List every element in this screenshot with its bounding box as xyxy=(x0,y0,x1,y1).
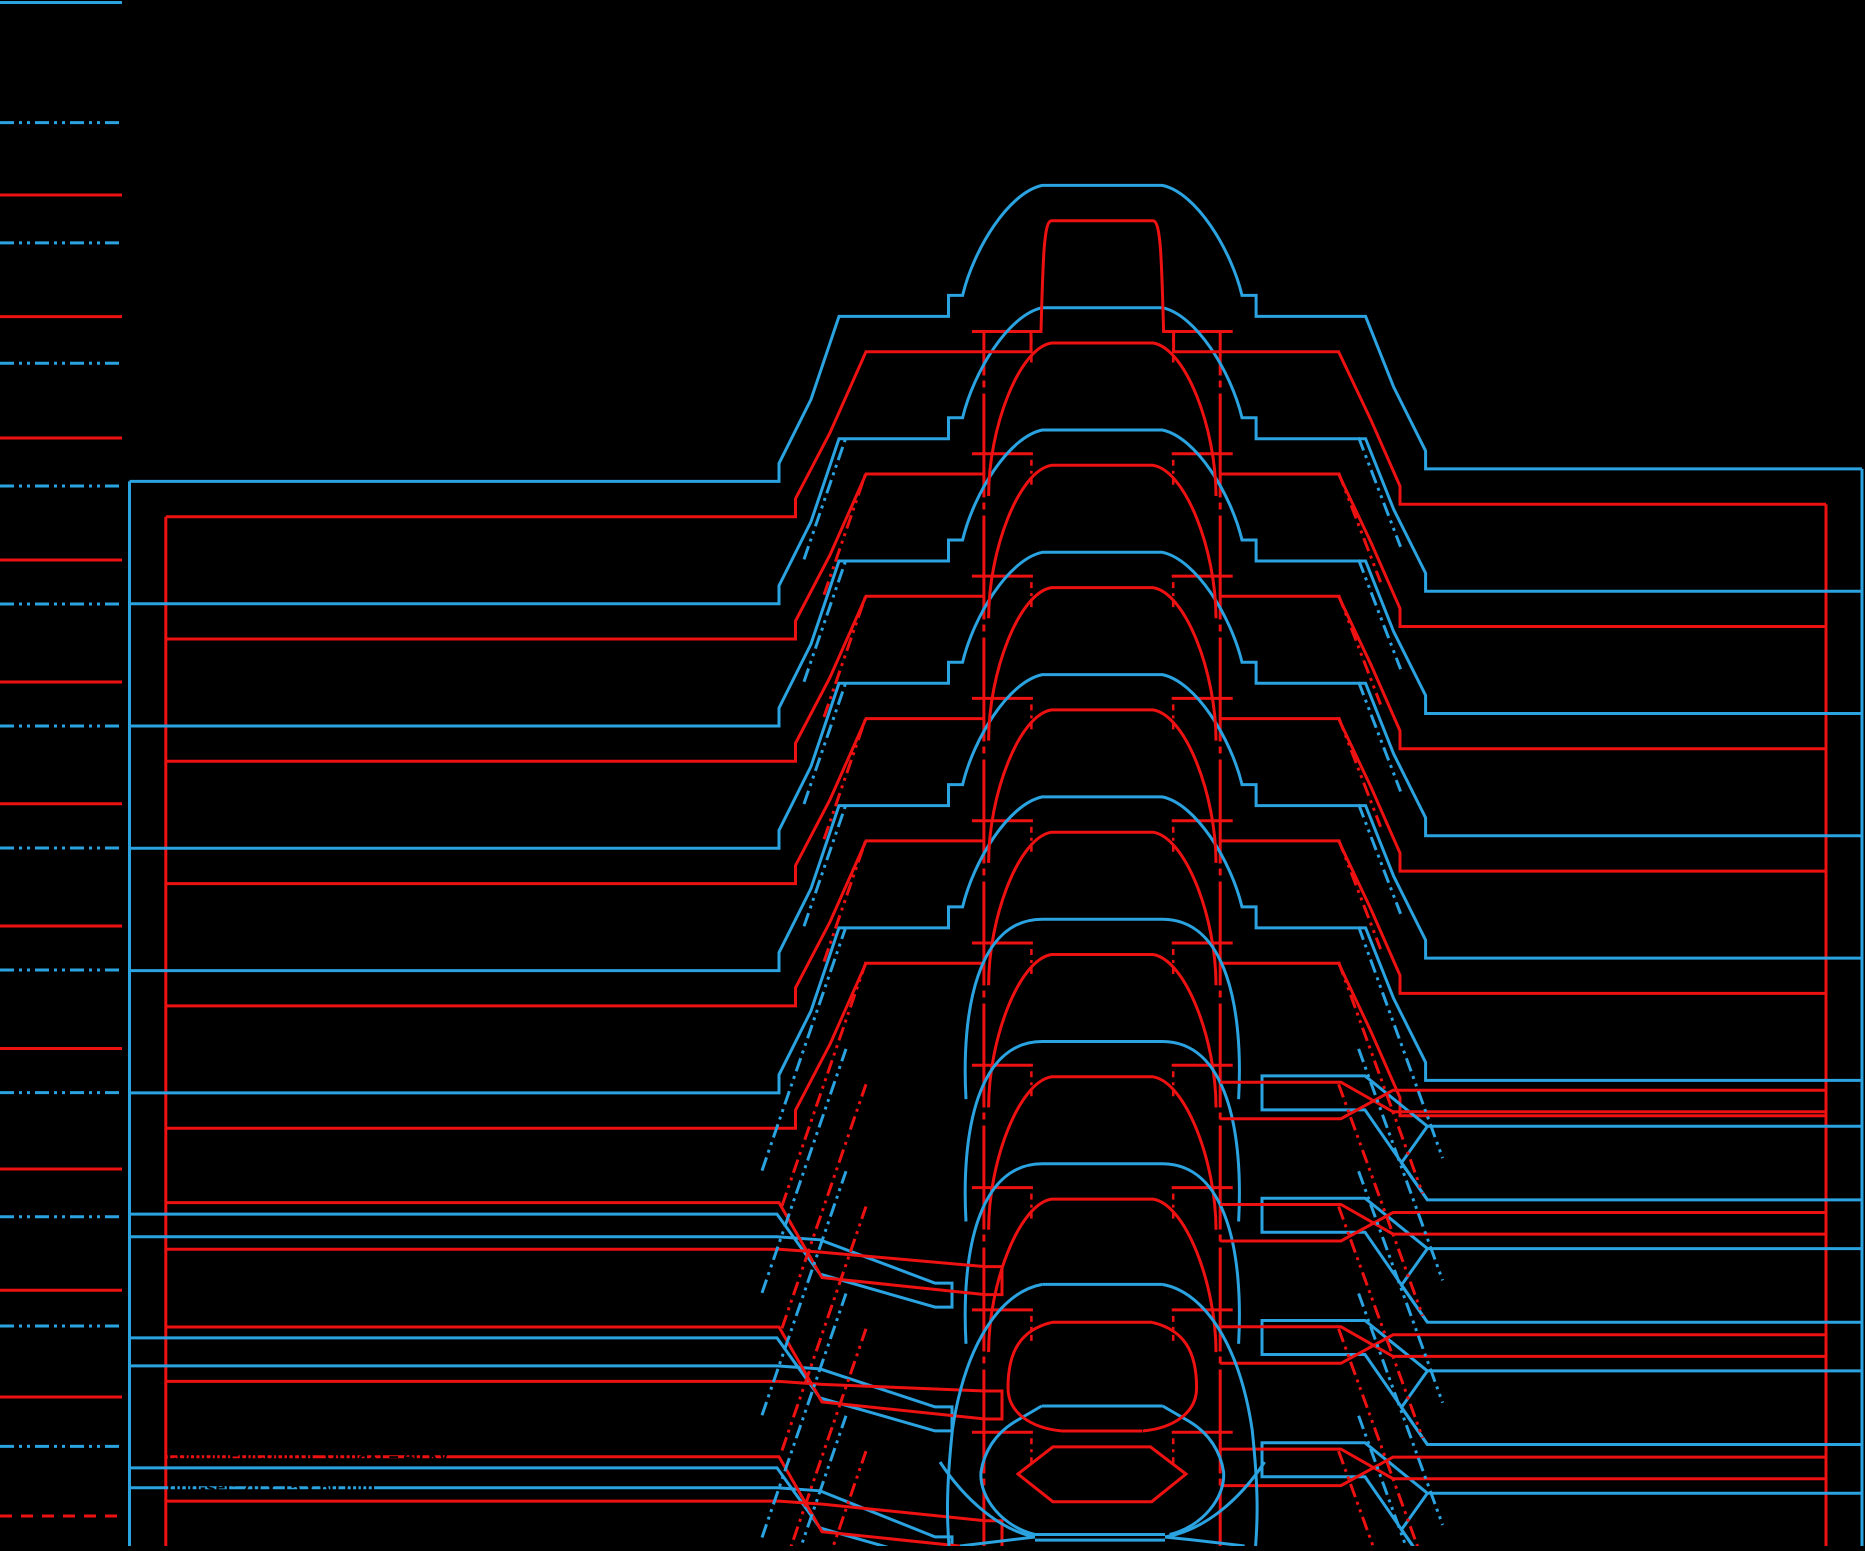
red contour 1 left side xyxy=(166,474,984,639)
blue dash-dot ramp left 3 xyxy=(804,804,846,926)
blue omega dome 8 xyxy=(965,1164,1239,1344)
electrode cap right 8 xyxy=(1172,1308,1233,1311)
red omega dome 6 xyxy=(989,955,1216,1108)
stub blue solid top edge xyxy=(0,1,122,4)
blue dash-dot ramp left 1 xyxy=(804,560,846,682)
red band right lower 1 xyxy=(1220,1213,1826,1242)
red contour 3 left side xyxy=(166,719,984,884)
electrode cap right 6 xyxy=(1172,1064,1233,1067)
dash-dot fragment left 6 xyxy=(1030,1071,1033,1099)
red contour 2 right side xyxy=(1220,596,1826,749)
dash-dot fragment left 7 xyxy=(1030,1194,1033,1222)
red contour 3 right side xyxy=(1220,719,1826,872)
red hexagon k10 xyxy=(1018,1447,1186,1502)
stub blue dash-dot 11 xyxy=(0,1445,122,1448)
blue dash-dot ramp left 7 xyxy=(762,1294,846,1538)
electrode cap left 2 xyxy=(972,575,1033,578)
blue dash-dot ramp left 4 xyxy=(762,927,846,1171)
red dash-dot ramp right 7 xyxy=(1339,1329,1423,1551)
electrode cap left 1 xyxy=(972,452,1033,455)
blue stem band right 1 xyxy=(1262,1198,1427,1322)
blue dash-dot ramp left 6 xyxy=(762,1171,846,1415)
red dash-dot ramp right 6 xyxy=(1339,1207,1423,1439)
right blue rail xyxy=(1861,469,1864,1546)
electrode cap left 4 xyxy=(972,819,1033,822)
rail loops xyxy=(131,1214,952,1307)
svg-text:combined/control: U(max) =: combined/control: U(max) = 40 kV xyxy=(167,1445,450,1465)
stub red dashed 11 xyxy=(0,1515,122,1518)
blue contour 5 xyxy=(130,797,1863,1093)
stub red solid 7 xyxy=(0,1047,122,1050)
blue omega dome 6 xyxy=(965,919,1239,1099)
red contour 2 left side xyxy=(166,596,984,761)
blue dash-dot ramp right 1 xyxy=(1359,560,1401,670)
red omega dome 7 xyxy=(989,1077,1216,1230)
red omega dome 1 xyxy=(989,343,1216,496)
electrode cap right 5 xyxy=(1172,942,1233,945)
dash-dot fragment right 6 xyxy=(1172,1071,1175,1099)
red dash-dot ramp right 0 xyxy=(1339,473,1381,583)
red dash-dot ramp left 8 xyxy=(782,1451,866,1551)
dash-dot fragment right 3 xyxy=(1172,704,1175,732)
red omega dome 3 xyxy=(989,588,1216,741)
red band right upper 0 xyxy=(1220,1082,1826,1112)
dash-dot fragment left 1 xyxy=(1030,460,1033,488)
red dash-dot ramp right 5 xyxy=(1339,1084,1423,1316)
electrode cap left 6 xyxy=(972,1064,1033,1067)
stub red solid 2 xyxy=(0,437,122,440)
stub blue dash-dot 3 xyxy=(0,485,122,488)
dash-dot fragment right 1 xyxy=(1172,460,1175,488)
blue lens k11 xyxy=(1035,1533,1165,1536)
red dash-dot ramp right 3 xyxy=(1339,840,1381,950)
red dash-dot ramp left 0 xyxy=(824,473,866,595)
electrode cap right 7 xyxy=(1172,1186,1233,1189)
blue dash-dot ramp left 2 xyxy=(804,682,846,804)
red dash-dot ramp left 2 xyxy=(824,717,866,839)
red contour 4 right side xyxy=(1220,841,1826,994)
red band right upper 1 xyxy=(1220,1205,1826,1235)
red contour 5 right side xyxy=(1220,963,1826,1115)
red dash-dot ramp left 4 xyxy=(782,962,866,1206)
red band right lower 3 xyxy=(1220,1457,1826,1486)
dash-dot fragment right 7 xyxy=(1172,1194,1175,1222)
stub red solid 4 xyxy=(0,681,122,684)
stub blue dash-dot 8 xyxy=(0,1091,122,1094)
dash-dot fragment left 0 xyxy=(1030,338,1033,366)
blue stem band right 2 xyxy=(1262,1321,1427,1445)
stub blue dash-dot 9 xyxy=(0,1215,122,1218)
red band right upper 3 xyxy=(1220,1449,1826,1479)
dash-dot fragment left 2 xyxy=(1030,582,1033,610)
left electrode stem xyxy=(982,332,985,1547)
red dash-dot ramp right 4 xyxy=(1339,962,1423,1194)
red dash-dot ramp right 1 xyxy=(1339,595,1381,705)
blue dash-dot ramp left 8 xyxy=(762,1416,846,1551)
stub blue dash-dot 1 xyxy=(0,241,122,244)
red twisted band left 0 xyxy=(167,1203,1002,1295)
stub red solid 9 xyxy=(0,1289,122,1292)
stub blue dash-dot 2 xyxy=(0,362,122,365)
dash-dot fragment left 9 xyxy=(1030,1438,1033,1466)
dash-dot fragment left 8 xyxy=(1030,1316,1033,1344)
stub red solid 8 xyxy=(0,1168,122,1171)
left blue rail xyxy=(128,481,131,1546)
red omega dome 2 xyxy=(989,465,1216,618)
red twisted band left 2 xyxy=(167,1457,1002,1549)
stub blue dash-dot 4 xyxy=(0,603,122,606)
stub blue dash-dot 0 xyxy=(0,121,122,124)
dash-dot fragment right 0 xyxy=(1172,338,1175,366)
red hexagon k9 xyxy=(1052,1321,1152,1324)
blue stem band right 3 xyxy=(1262,1443,1427,1551)
red contour 5 left side xyxy=(166,963,984,1128)
dash-dot fragment left 4 xyxy=(1030,827,1033,855)
blue dash-dot ramp right 3 xyxy=(1359,804,1401,914)
stub red solid 5 xyxy=(0,802,122,805)
right electrode stem xyxy=(1219,332,1222,1547)
blue stem band right 0 xyxy=(1262,1076,1427,1200)
dash-dot fragment right 5 xyxy=(1172,949,1175,977)
blue dash-dot ramp left 5 xyxy=(762,1049,846,1293)
red contour 1 right side xyxy=(1220,474,1826,627)
red band right lower 0 xyxy=(1220,1090,1826,1119)
red dash-dot ramp left 3 xyxy=(824,840,866,962)
stub red solid 6 xyxy=(0,925,122,928)
right red rail xyxy=(1825,504,1828,1546)
electrode cap right 2 xyxy=(1172,575,1233,578)
dash-dot fragment right 8 xyxy=(1172,1316,1175,1344)
stub blue dash-dot 7 xyxy=(0,969,122,972)
electrode cap left 3 xyxy=(972,697,1033,700)
stub red solid 10 xyxy=(0,1396,122,1399)
blue dash-dot ramp right 0 xyxy=(1359,437,1401,547)
blue dash-dot ramp right 2 xyxy=(1359,682,1401,792)
blue chevron loop right 0 xyxy=(1401,1126,1862,1200)
stub red solid 0 xyxy=(0,194,122,197)
stub blue dash-dot 6 xyxy=(0,847,122,850)
red contour 4 left side xyxy=(166,841,984,1006)
blue contour 4 xyxy=(130,675,1863,971)
blue hexagon k10 xyxy=(1042,1405,1163,1408)
stub red solid 3 xyxy=(0,559,122,562)
blue contour 3 xyxy=(130,552,1863,848)
electrode cap left 8 xyxy=(972,1308,1033,1311)
blue dash-dot ramp right 8 xyxy=(1359,1416,1443,1551)
stub blue dash-dot 10 xyxy=(0,1325,122,1328)
dash-dot fragment right 4 xyxy=(1172,827,1175,855)
red dash-dot ramp left 6 xyxy=(782,1207,866,1451)
dash-dot fragment right 9 xyxy=(1172,1438,1175,1466)
electrode cap right 1 xyxy=(1172,452,1233,455)
electrode cap left 7 xyxy=(972,1186,1033,1189)
electrode cap right 0 xyxy=(1172,330,1233,333)
red dash-dot ramp left 7 xyxy=(782,1329,866,1551)
blue contour 1 xyxy=(130,308,1863,604)
blue contour 2 xyxy=(130,430,1863,726)
electrode cap left 5 xyxy=(972,942,1033,945)
red omega dome 8 xyxy=(989,1199,1216,1352)
stub red solid 1 xyxy=(0,315,122,318)
electrode cap right 3 xyxy=(1172,697,1233,700)
electrode cap right 4 xyxy=(1172,819,1233,822)
red band right lower 2 xyxy=(1220,1335,1826,1364)
red dash-dot ramp left 5 xyxy=(782,1084,866,1328)
stub blue dash-dot 5 xyxy=(0,725,122,728)
blue chevron loop right 3 xyxy=(1401,1493,1862,1551)
blue chevron loop right 1 xyxy=(1401,1249,1862,1323)
red dash-dot ramp left 1 xyxy=(824,595,866,717)
svg-text:ring-set: 70 x 15 x 60 mm: ring-set: 70 x 15 x 60 mm xyxy=(167,1477,375,1497)
blue dash-dot ramp right 4 xyxy=(1359,927,1443,1159)
red dash-dot ramp right 2 xyxy=(1339,717,1381,827)
left red rail xyxy=(164,517,167,1546)
red twisted band left 1 xyxy=(167,1327,1002,1419)
red band right upper 2 xyxy=(1220,1327,1826,1357)
blue contour 0 xyxy=(130,185,1863,481)
dash-dot fragment left 3 xyxy=(1030,704,1033,732)
blue dash-dot ramp right 6 xyxy=(1359,1171,1443,1403)
red contour 0 xyxy=(166,221,1826,517)
blue omega dome 7 xyxy=(965,1042,1239,1222)
electrode cap left 0 xyxy=(972,330,1033,333)
red omega dome 5 xyxy=(989,832,1216,985)
blue dash-dot ramp right 7 xyxy=(1359,1294,1443,1526)
dash-dot fragment left 5 xyxy=(1030,949,1033,977)
blue dash-dot ramp left 0 xyxy=(804,437,846,559)
red dash-dot ramp right 8 xyxy=(1339,1451,1423,1551)
blue chevron loop right 2 xyxy=(1401,1371,1862,1445)
blue hexagon k9 xyxy=(1042,1283,1162,1286)
electrode cap right 9 xyxy=(1172,1431,1233,1434)
red omega dome 4 xyxy=(989,710,1216,863)
electrode cap left 9 xyxy=(972,1431,1033,1434)
blue dash-dot ramp right 5 xyxy=(1359,1049,1443,1281)
dash-dot fragment right 2 xyxy=(1172,582,1175,610)
